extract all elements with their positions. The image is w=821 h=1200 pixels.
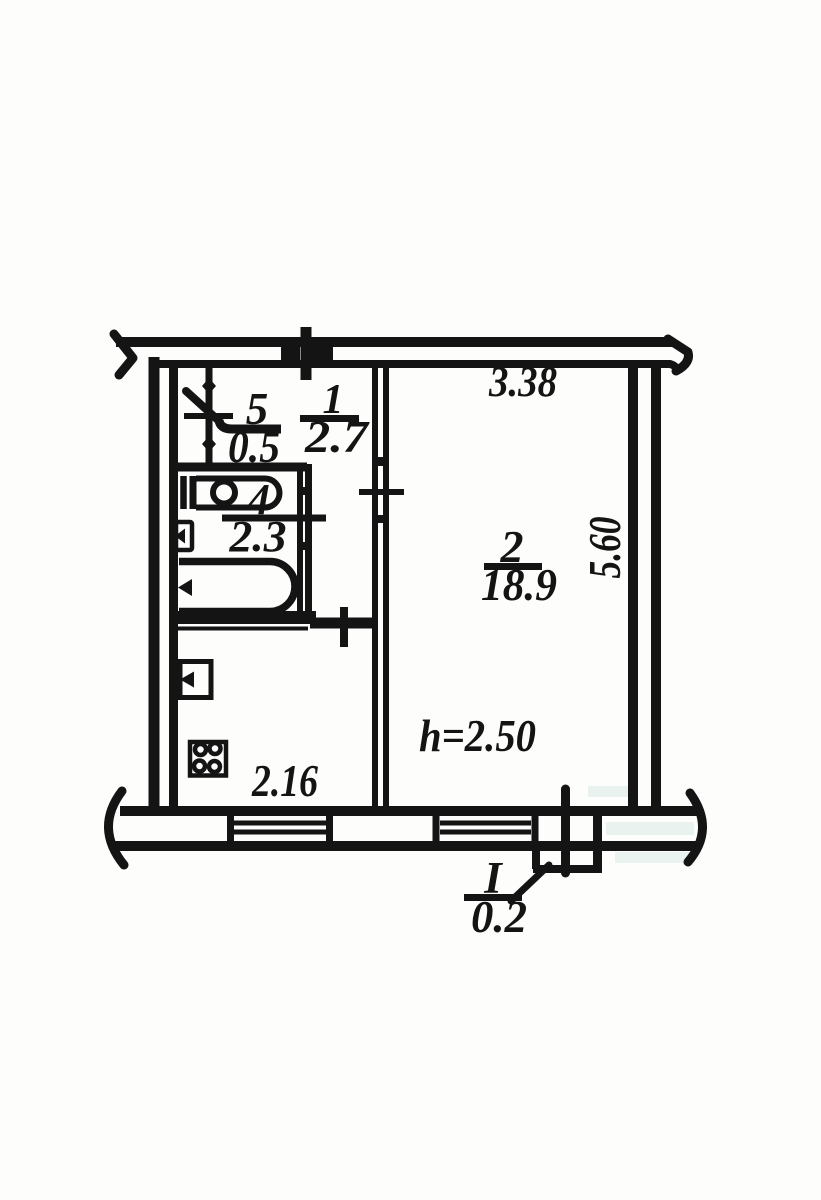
faint bleed-through artifact below wall	[615, 852, 695, 863]
stove burner 1	[195, 744, 206, 755]
balcony door jamb line	[561, 789, 570, 873]
bathroom door jamb plug upper	[297, 487, 312, 495]
toilet hinge nub	[175, 529, 185, 544]
svg-text:2.16: 2.16	[251, 756, 318, 806]
right wall outer line	[651, 368, 661, 811]
partition hall/room2 right line	[383, 368, 389, 806]
room 5 wall bar	[219, 420, 281, 429]
toilet door swing	[186, 391, 219, 421]
kitchen sink	[180, 662, 211, 698]
bathroom right wall outer line	[305, 464, 312, 616]
wire: top wall inner line	[152, 364, 676, 373]
stove burner 2	[210, 743, 221, 754]
bottom wall inner line	[120, 806, 700, 816]
svg-text:3.38: 3.38	[488, 359, 557, 406]
window divider 1	[227, 811, 234, 846]
toilet partition dot upper	[202, 378, 216, 394]
stove	[190, 742, 226, 776]
hall floor bar right part	[310, 618, 378, 629]
svg-text:18.9: 18.9	[481, 559, 557, 610]
toilet bowl	[176, 522, 192, 550]
svg-text:2.3: 2.3	[228, 512, 286, 561]
partition hall/room2 left line	[372, 368, 378, 806]
label bar room 1	[300, 415, 359, 422]
wall break fork bottom-left	[108, 791, 124, 865]
svg-text:5.60: 5.60	[579, 517, 630, 579]
partition door dimension tick	[359, 489, 404, 495]
label bar loggia	[464, 894, 522, 901]
toilet partition dot lower	[202, 436, 216, 452]
svg-text:0.5: 0.5	[228, 422, 280, 472]
washbasin left bar 2	[190, 476, 197, 509]
stove burner 4	[209, 761, 220, 772]
balcony box left edge	[532, 850, 540, 869]
loggia leader line	[511, 865, 549, 901]
toilet partition	[206, 368, 213, 464]
svg-text:2.7: 2.7	[304, 412, 370, 462]
window divider 4	[532, 811, 539, 846]
left wall outer line	[149, 357, 160, 811]
bathtub	[179, 562, 295, 612]
bathroom door jamb plug lower	[297, 542, 312, 550]
toilet door tick	[184, 413, 233, 419]
kitchen sink nub	[180, 672, 194, 688]
window divider 2	[326, 811, 333, 846]
bathtub hinge nub	[178, 579, 192, 596]
window W1 glazing lines	[234, 823, 326, 832]
bathroom right wall inner line	[297, 471, 303, 612]
balcony box bottom edge	[533, 865, 601, 873]
label bar room 2	[484, 563, 542, 570]
wall break arrow top-right	[668, 339, 689, 371]
bottom wall outer line	[112, 841, 698, 851]
partition door jamb plug upper	[372, 457, 389, 466]
window divider 3	[433, 811, 440, 846]
hall floor dimension tick	[340, 607, 348, 647]
partition door jamb plug lower	[372, 515, 389, 523]
wire: top wall outer line	[116, 337, 672, 347]
svg-text:0.2: 0.2	[471, 892, 527, 942]
right wall inner line	[628, 368, 638, 812]
label bar 2.3 and wall tick	[222, 515, 326, 522]
left wall inner line	[169, 362, 178, 806]
wall break fork bottom-right	[688, 793, 703, 862]
wall break arrow top-left	[114, 334, 133, 375]
balcony door second line	[593, 811, 602, 873]
window W2 glazing lines	[440, 823, 531, 832]
kitchen top wall thick bar	[169, 611, 316, 624]
top wall cavity fill right	[311, 347, 333, 362]
washbasin body	[196, 479, 280, 508]
kitchen top wall thin line	[178, 627, 308, 631]
svg-text:h=2.50: h=2.50	[419, 710, 536, 761]
top wall cavity fill left	[281, 347, 300, 362]
washbasin circle	[213, 482, 235, 504]
top wall dimension tick	[301, 327, 312, 380]
washbasin left bar 1	[180, 476, 187, 509]
bathroom top wall	[169, 463, 307, 472]
stove burner 3	[194, 761, 205, 772]
faint bleed-through artifact right cavity	[606, 822, 694, 835]
faint bleed-through artifact above wall	[588, 786, 632, 797]
